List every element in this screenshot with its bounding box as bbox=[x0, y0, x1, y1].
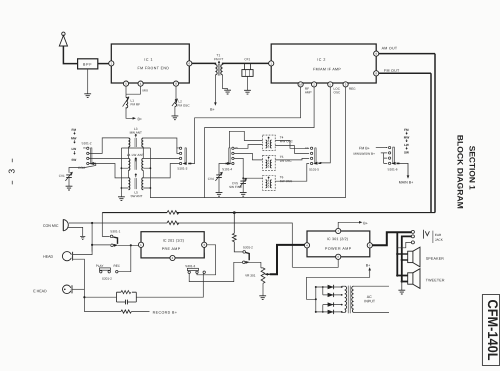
IC1 pin 4 bbox=[138, 81, 143, 86]
tape head HEAD bbox=[43, 252, 72, 261]
svg-text:LW OSC: LW OSC bbox=[280, 159, 293, 163]
antenna coil L4 LW ANT bbox=[127, 148, 144, 170]
svg-text:SW ANT: SW ANT bbox=[130, 194, 142, 198]
wire S101-2 row2 over to L3 bbox=[89, 138, 129, 154]
svg-text:B+: B+ bbox=[210, 108, 215, 112]
svg-text:MW/LW/SW B+: MW/LW/SW B+ bbox=[354, 152, 376, 156]
svg-text:S301-2: S301-2 bbox=[243, 245, 253, 249]
bus FM vertical bbox=[430, 73, 432, 212]
svg-text:DC: DC bbox=[83, 147, 87, 150]
IC301 pin 8 bbox=[367, 243, 372, 248]
antenna block left rail with ground bbox=[118, 148, 125, 201]
wire pin5 pin4 join bbox=[126, 86, 141, 94]
wire head top to record bus bbox=[73, 245, 93, 255]
wire T4 to S101-5 rows bbox=[275, 141, 309, 154]
svg-text:FM/AM IF AMP: FM/AM IF AMP bbox=[313, 67, 341, 71]
svg-text:LOCOSC: LOCOSC bbox=[334, 87, 341, 95]
FM B+ feed to S101-6 bbox=[359, 146, 387, 150]
svg-text:E HEAD: E HEAD bbox=[33, 289, 47, 293]
svg-text:LW: LW bbox=[72, 147, 77, 151]
svg-text:PLAY: PLAY bbox=[96, 264, 104, 268]
IC2 pin LOC OSC bbox=[328, 82, 333, 87]
svg-text:PRE AMP: PRE AMP bbox=[162, 247, 181, 251]
wire IC201 out to S301-3 bbox=[197, 245, 216, 275]
wire L5 to S101-3 row4 bbox=[143, 164, 179, 178]
ground below CV5 bbox=[240, 184, 247, 197]
variable capacitor CV5 SW FINE bbox=[229, 179, 246, 189]
antenna bbox=[59, 32, 77, 64]
RC network parallel box bbox=[117, 291, 137, 305]
svg-text:B+: B+ bbox=[137, 117, 142, 121]
power supply B+ node bbox=[307, 264, 371, 300]
svg-text:AM OUT: AM OUT bbox=[382, 46, 398, 50]
svg-text:FM: FM bbox=[72, 128, 77, 132]
svg-text:TWEETER: TWEETER bbox=[426, 278, 445, 282]
wire head bottom down rail bbox=[73, 259, 85, 311]
preamp IC 201 box bbox=[141, 232, 204, 258]
resistor drop from line A to S301-2 bbox=[232, 213, 243, 252]
svg-text:SW: SW bbox=[71, 158, 76, 162]
IC201 pin 1 bbox=[138, 242, 143, 247]
rectifier diode bridge bbox=[315, 286, 343, 313]
thick speaker bus right bbox=[402, 236, 412, 281]
svg-text:POWER AMP: POWER AMP bbox=[325, 247, 352, 251]
line B continues to power amp input bbox=[177, 223, 293, 267]
diode D3 bbox=[328, 302, 334, 306]
coil L2 FM OSC bbox=[172, 86, 190, 107]
mic ground leg bbox=[68, 227, 85, 239]
wire T1 primary to B+ bbox=[210, 75, 217, 112]
svg-text:FM OSC: FM OSC bbox=[178, 103, 191, 107]
tuner frame bottom wire bbox=[205, 197, 346, 199]
wire S301-2 to VR301 top bbox=[245, 262, 261, 268]
AC INPUT leads bbox=[354, 286, 389, 312]
ear jack plug symbol bbox=[423, 230, 443, 243]
monitor switch S301-3 bbox=[185, 264, 205, 273]
ground below L2 bbox=[172, 106, 179, 119]
svg-text:LW: LW bbox=[404, 143, 409, 147]
IC301 pin 4 bbox=[304, 243, 309, 248]
svg-text:CON MIC: CON MIC bbox=[43, 224, 59, 228]
IC2 pin FM out bbox=[374, 71, 379, 76]
antenna block right rail bbox=[150, 148, 204, 198]
thick audio path VR301 to IC301 bbox=[270, 245, 305, 274]
svg-text:SPEAKER: SPEAKER bbox=[426, 257, 445, 261]
page number 3 left margin bbox=[6, 159, 16, 185]
diode D2 bbox=[328, 293, 334, 297]
svg-text:RECORD B+: RECORD B+ bbox=[153, 311, 178, 315]
IC1 pin 1 bbox=[109, 61, 114, 66]
svg-text:FM: FM bbox=[404, 128, 409, 132]
wire S101-4 row2 to T5 bbox=[234, 153, 263, 160]
osc transformer T6 SW OSC bbox=[263, 175, 293, 190]
play/rec switch S201-2 bbox=[96, 264, 121, 281]
ear jack contacts bbox=[397, 230, 414, 247]
wire IC2 pin2 down to tuner frame bbox=[205, 87, 315, 198]
wire T1 secondary to ground bbox=[223, 75, 231, 94]
svg-text:MIX: MIX bbox=[143, 88, 149, 92]
wire T1 to CF1 to IC2 bbox=[223, 63, 269, 64]
wire junction down to REC contact bbox=[118, 245, 131, 271]
svg-text:S101-6: S101-6 bbox=[388, 167, 398, 171]
wire erase head to rail bbox=[72, 288, 84, 290]
power transformer T301 bbox=[342, 286, 354, 314]
svg-text:MW: MW bbox=[404, 135, 410, 139]
wire IC301 pin6 input bbox=[292, 259, 338, 267]
svg-text:HEAD: HEAD bbox=[43, 255, 53, 259]
osc transformer T4 MW OSC bbox=[263, 135, 294, 151]
resistor on line A bbox=[167, 211, 179, 215]
svg-text:REG: REG bbox=[349, 87, 356, 91]
antenna coil L5 SW ANT bbox=[128, 170, 143, 198]
IC2 pin AM out bbox=[374, 51, 379, 56]
thick wire IC301 out to jack bbox=[372, 232, 411, 245]
IC2 pin 2 bbox=[312, 82, 317, 87]
svg-text:S201-2: S201-2 bbox=[102, 277, 112, 281]
wire L3 right top over to S101-3 bbox=[143, 138, 179, 153]
osc transformer T5 LW OSC bbox=[263, 155, 293, 170]
band switch S101-5 bbox=[305, 147, 322, 172]
transformer T1 FM FT bbox=[214, 53, 223, 75]
wire S101-6 wiper to MAIN B+ bbox=[399, 163, 413, 184]
wire S101-4 row1 to T4 bbox=[234, 145, 263, 149]
wire S301-3 left contact to volume switch bbox=[189, 262, 242, 281]
op IC1 FM FRONT END box bbox=[111, 44, 189, 83]
svg-text:SECTION 1: SECTION 1 bbox=[467, 146, 476, 191]
svg-text:S301-1: S301-1 bbox=[110, 229, 120, 233]
IC2 pin RF AMP bbox=[298, 82, 303, 87]
svg-text:S101-5: S101-5 bbox=[309, 168, 319, 172]
svg-text:BLOCK DIAGRAM: BLOCK DIAGRAM bbox=[455, 135, 464, 209]
band label column FM MW LW SW right bbox=[404, 128, 410, 155]
svg-text:FM FT: FM FT bbox=[214, 57, 223, 61]
svg-text:IC 201 (1/2): IC 201 (1/2) bbox=[163, 239, 184, 243]
svg-text:CFM-140L: CFM-140L bbox=[485, 300, 500, 361]
wire S101-2 row3 to L4 rail bbox=[89, 157, 128, 159]
wire IC301 pin7 to B+ bbox=[338, 221, 368, 228]
svg-text:S301-3: S301-3 bbox=[185, 264, 195, 268]
wire T5 to S101-5 row3 bbox=[275, 158, 309, 160]
MW/LW/SW B+ feed bus bbox=[354, 152, 388, 164]
variable capacitor CV1 bbox=[59, 172, 72, 181]
svg-text:MW OSC: MW OSC bbox=[280, 139, 294, 143]
BPF filter bbox=[78, 59, 98, 69]
svg-text:S101-2: S101-2 bbox=[82, 141, 92, 145]
svg-text:IC 2: IC 2 bbox=[317, 58, 326, 62]
wire BPF to IC1 bbox=[98, 63, 109, 65]
wire S101-4 top feedback to T4 bbox=[229, 131, 262, 148]
wire S101-4 row3 down to CV5 and T6 bbox=[234, 158, 263, 181]
svg-text:MAIN B+: MAIN B+ bbox=[399, 181, 413, 185]
tweeter bbox=[408, 269, 445, 289]
svg-text:INPUT: INPUT bbox=[364, 299, 376, 303]
wire S301-1 to preamp input bbox=[118, 244, 139, 246]
band switch S101-6 bbox=[386, 146, 400, 171]
svg-text:S101-4: S101-4 bbox=[222, 167, 232, 171]
speaker SP301 bbox=[408, 247, 445, 267]
svg-text:EAR: EAR bbox=[435, 233, 442, 237]
line A continues to bus bbox=[177, 212, 436, 214]
ground below CV1 bbox=[66, 177, 73, 190]
thick speaker bus left bbox=[397, 232, 407, 275]
ground below BPF bbox=[84, 69, 91, 98]
svg-text:IC 301 (2/2): IC 301 (2/2) bbox=[327, 237, 348, 241]
IC2 FM/AM IF AMP box bbox=[271, 44, 376, 83]
wire S101-2 row4 to L5 area bbox=[89, 164, 128, 178]
wire L1 to B+ bbox=[126, 107, 142, 121]
svg-text:B+: B+ bbox=[366, 264, 371, 268]
band switch S101-3 bbox=[176, 147, 191, 171]
L4 taps to rails bbox=[121, 167, 152, 169]
svg-text:REC: REC bbox=[114, 264, 121, 268]
power amp IC 301 box bbox=[307, 231, 370, 257]
svg-text:SW: SW bbox=[404, 151, 409, 155]
svg-text:FM RF: FM RF bbox=[131, 102, 141, 106]
wire IC1 pin6 to T1 bbox=[192, 63, 216, 64]
ground below VR301 bbox=[259, 283, 266, 299]
svg-text:L4 LW ANT: L4 LW ANT bbox=[127, 153, 144, 157]
wire FM OUT bbox=[379, 69, 431, 74]
svg-text:FM B+: FM B+ bbox=[359, 146, 370, 150]
L5 taps to rails bbox=[121, 187, 152, 189]
svg-text:MW: MW bbox=[71, 136, 77, 140]
svg-text:JACK: JACK bbox=[435, 238, 444, 242]
wire IC2 LOC OSC pin down to S101-5 wiper bbox=[321, 87, 330, 163]
svg-text:COM: COM bbox=[78, 166, 86, 170]
speaker stubs bbox=[396, 253, 408, 283]
svg-text:S101-3: S101-3 bbox=[177, 166, 187, 170]
wire IC2 RF AMP pin down to S101-3 wiper bbox=[191, 87, 301, 164]
IC201 pin 3 bbox=[202, 242, 207, 247]
erase head E HEAD bbox=[33, 285, 72, 294]
svg-text:CF1: CF1 bbox=[244, 57, 250, 61]
ceramic filter CF1 bbox=[242, 57, 253, 76]
svg-text:IC 1: IC 1 bbox=[144, 58, 153, 62]
svg-text:16: 16 bbox=[299, 83, 303, 87]
IC2 pin REG bbox=[343, 82, 348, 87]
band label column FM MW LW SW left bbox=[71, 128, 77, 162]
svg-text:BPF: BPF bbox=[83, 63, 92, 67]
junction dot line A to volume feed bbox=[233, 211, 236, 214]
wire mic to line B bbox=[69, 222, 92, 224]
IC1 pin 8 bbox=[173, 81, 178, 86]
svg-text:CV4: CV4 bbox=[208, 177, 214, 181]
diode D1 bbox=[328, 285, 334, 289]
band switch S101-2 bbox=[82, 141, 96, 165]
coil L1 FM RF bbox=[123, 94, 141, 108]
band switch S101-4 bbox=[222, 147, 238, 172]
record select switch S301-1 bbox=[110, 229, 120, 246]
ground below CV4 bbox=[216, 177, 223, 196]
model label box CFM-140L bbox=[482, 295, 500, 366]
wire AM OUT bbox=[379, 46, 435, 53]
ground below CF1 bbox=[244, 76, 251, 94]
record B+ line bbox=[84, 310, 177, 315]
IC301 pin 7 bbox=[336, 228, 341, 233]
diode D4 bbox=[328, 310, 334, 314]
wire IC2 REG pin down bbox=[345, 87, 347, 198]
svg-text:FM FRONT END: FM FRONT END bbox=[138, 66, 170, 70]
radio out bus wire (line A) bbox=[102, 212, 167, 214]
svg-text:3: 3 bbox=[6, 169, 16, 174]
IC1 pin 5 bbox=[123, 81, 128, 86]
wire rail to RC box bbox=[83, 273, 203, 298]
bus AM vertical bbox=[434, 54, 436, 213]
svg-text:FM OUT: FM OUT bbox=[384, 69, 400, 73]
svg-text:CV1: CV1 bbox=[59, 174, 65, 178]
IC301 pin 6 bbox=[336, 254, 341, 259]
speaker select switch S301-2 bbox=[243, 245, 254, 263]
junction dot mic branch bbox=[91, 222, 93, 224]
antenna coil L3 MW ANT bbox=[128, 127, 143, 147]
antenna block top rail bbox=[121, 147, 150, 148]
svg-text:DC: DC bbox=[305, 147, 309, 150]
ground below speaker bus bbox=[398, 282, 405, 295]
wire T6 to S101-5 row4 bbox=[275, 164, 309, 182]
volume control VR301 bbox=[245, 268, 270, 283]
wire mic branch down to S301-1 and head bbox=[91, 223, 110, 252]
wire line A down to S301-1 bbox=[102, 213, 109, 237]
resistor on line B bbox=[167, 221, 179, 225]
mic line B wire bbox=[92, 222, 167, 224]
IC201 pin 2 bbox=[170, 255, 175, 260]
svg-text:VR 301: VR 301 bbox=[245, 273, 256, 277]
variable capacitor CV4 bbox=[208, 172, 222, 181]
IC2 pin in bbox=[269, 61, 274, 66]
svg-text:B+: B+ bbox=[363, 221, 368, 225]
condenser mic CON MIC bbox=[43, 219, 68, 231]
wire S101-4 wiper to CV4 bbox=[219, 164, 225, 175]
wire S101-3 rows to antenna rails bbox=[143, 157, 179, 159]
wire S101-2 COM to CV1 bbox=[69, 164, 96, 173]
IC1 pin 6 bbox=[187, 61, 192, 66]
wire IC201 pin2 feedback bbox=[175, 253, 204, 258]
